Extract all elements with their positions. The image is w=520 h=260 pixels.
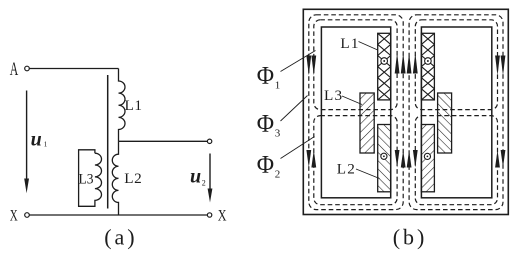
flux arrows lower right leg (up, down): [495, 150, 500, 168]
core line: [107, 75, 109, 209]
svg-text:(b): (b): [393, 225, 428, 250]
flux arrows upper left leg (down): [306, 56, 311, 76]
terminal X right: [207, 213, 211, 217]
svg-text:A: A: [10, 59, 19, 80]
leader L2: [356, 169, 380, 179]
svg-text:L2: L2: [337, 160, 356, 177]
wire bottom rail: [30, 214, 208, 216]
flux arrows lower left leg (down, up): [306, 150, 311, 168]
winding L2 right block: [421, 125, 434, 192]
winding L3 left block: [360, 93, 374, 153]
core outline: [303, 9, 508, 214]
terminal top right: [207, 139, 211, 143]
flux loop outer left: [309, 15, 403, 210]
winding L1 right block: [421, 33, 434, 100]
leader L3: [342, 96, 362, 105]
svg-text:u: u: [190, 165, 201, 187]
flux loop outer right: [409, 15, 503, 210]
svg-text:u: u: [31, 128, 42, 150]
svg-text:Φ: Φ: [257, 111, 274, 138]
svg-text:Φ: Φ: [257, 63, 274, 90]
flux arrows upper center leg (up): [395, 53, 400, 74]
wire tap to terminal u2 top: [119, 140, 208, 142]
leader L1: [359, 42, 378, 51]
terminal A: [25, 66, 30, 71]
svg-text:(a): (a): [104, 225, 137, 250]
inductor L1 winding: [119, 69, 125, 142]
svg-text:L1: L1: [340, 35, 359, 52]
voltage arrow u2: [209, 154, 211, 190]
leader phi2: [281, 137, 315, 159]
svg-text:1: 1: [275, 80, 281, 92]
flux loop lower inner right: [415, 116, 497, 205]
svg-text:L1: L1: [125, 97, 143, 114]
winding L2 left current mark: [381, 153, 387, 159]
flux loop lower inner left: [314, 116, 397, 205]
svg-text:L3: L3: [79, 170, 94, 187]
flux arrows upper right leg (down): [495, 56, 500, 76]
flux loop upper inner right: [415, 20, 497, 110]
core window left: [321, 27, 390, 198]
winding L2 right current mark: [424, 153, 430, 159]
winding L1 left block: [378, 33, 391, 100]
flux arrows lower center leg (down, up, up, down): [395, 150, 400, 168]
winding L3 right block: [438, 93, 452, 153]
terminal X left: [25, 213, 30, 218]
winding L2 left block: [378, 125, 391, 192]
svg-text:2: 2: [202, 179, 206, 188]
winding L1 right current mark: [425, 58, 432, 65]
inductor L2 winding: [112, 141, 118, 215]
svg-text:X: X: [218, 207, 227, 224]
leader phi3: [281, 96, 308, 122]
core window right: [421, 27, 491, 198]
svg-text:2: 2: [275, 169, 281, 181]
inductor L3 shorted winding loop: [79, 150, 102, 207]
leader phi1: [281, 51, 316, 72]
flux loop upper inner left: [314, 20, 397, 110]
svg-text:3: 3: [275, 128, 281, 140]
winding L1 left current mark: [381, 58, 388, 65]
voltage arrow u1: [26, 91, 28, 180]
svg-text:1: 1: [44, 140, 48, 149]
svg-text:X: X: [10, 207, 18, 224]
svg-text:L3: L3: [324, 87, 343, 104]
svg-text:L2: L2: [124, 170, 142, 187]
wire top rail A to L1: [30, 68, 119, 70]
svg-text:Φ: Φ: [257, 152, 274, 179]
